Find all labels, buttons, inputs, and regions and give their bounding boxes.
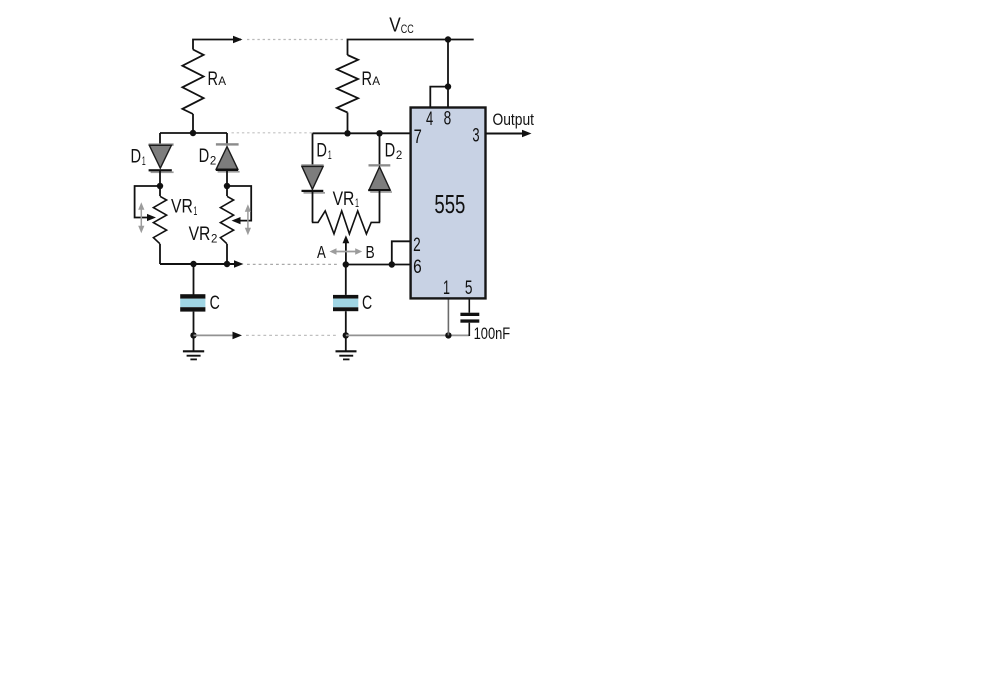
- ground (left): [183, 351, 204, 359]
- svg-text:D: D: [316, 140, 327, 162]
- label RA (left): [208, 68, 227, 90]
- wire: RA (left) bottom lead: [192, 114, 194, 133]
- potentiometer VR1 (left) zigzag: [153, 196, 166, 244]
- svg-text:VR: VR: [189, 223, 211, 245]
- svg-text:V: V: [389, 15, 401, 37]
- label RA (right): [362, 68, 381, 90]
- label D1 (left): [131, 146, 146, 168]
- svg-text:R: R: [208, 68, 219, 90]
- label Vcc: [389, 15, 414, 37]
- svg-text:1: 1: [443, 277, 450, 299]
- svg-text:A: A: [317, 242, 326, 262]
- junction: RA bottom node (left): [190, 130, 196, 136]
- wire: 100nF bottom lead: [468, 323, 470, 336]
- label D2 (left): [199, 145, 217, 167]
- svg-text:1: 1: [142, 154, 146, 168]
- wire: gray link from ground node (left): [194, 334, 235, 336]
- wire: C (right) top lead: [345, 265, 347, 295]
- junction: ground node (right): [343, 332, 349, 338]
- junction: pin2 branch node: [389, 261, 395, 267]
- wire: right circuit lower node to pin 6: [346, 264, 411, 266]
- capacitor 100nF: [460, 313, 479, 323]
- arrowhead: lower node pointing right: [234, 260, 244, 268]
- adjust arrow: VR1 gray double arrow: [138, 202, 144, 233]
- wire: left circuit top rail: [193, 40, 241, 50]
- wire: dotted link upper node: [232, 132, 313, 134]
- wire: dotted link top rail: [247, 39, 343, 41]
- wire: pin 8 to Vcc vertical: [447, 40, 449, 108]
- svg-text:2: 2: [413, 234, 421, 256]
- svg-text:555: 555: [434, 189, 465, 219]
- arrowhead: VR1 wiper pointing right: [147, 214, 156, 221]
- svg-text:D: D: [199, 145, 210, 167]
- diode D2 (right circuit): [368, 133, 392, 222]
- junction: pin4/8 tie node: [445, 83, 451, 89]
- resistor RA (left): [182, 50, 203, 115]
- svg-text:C: C: [362, 292, 372, 314]
- svg-text:2: 2: [396, 148, 403, 162]
- potentiometer VR2 (left) zigzag: [220, 196, 233, 244]
- junction: ground node (left): [190, 332, 196, 338]
- op-amp U1: 555 timer IC body: [411, 108, 486, 299]
- junction: D2 anode node (left): [224, 183, 230, 189]
- wire: pin 4 jog: [430, 87, 448, 108]
- arrowhead: VR2 wiper pointing left: [232, 217, 241, 224]
- svg-text:CC: CC: [401, 24, 414, 36]
- capacitor C (right): [333, 295, 358, 311]
- svg-text:VR: VR: [171, 196, 193, 218]
- wire: right circuit top rail: [348, 40, 474, 56]
- wire: gray bottom rail to pins 1 and 5: [346, 334, 470, 336]
- label VR1 (right): [333, 188, 360, 210]
- ground (right): [336, 351, 357, 359]
- junction: pin1 bottom node: [445, 332, 451, 338]
- wire: pin 5 down lead: [468, 298, 470, 312]
- adjust arrow: A-B gray double arrow: [330, 248, 363, 254]
- svg-text:A: A: [372, 74, 380, 88]
- svg-text:4: 4: [426, 108, 433, 130]
- capacitor C (left): [180, 294, 205, 311]
- wire: C (left) bottom lead: [193, 312, 195, 351]
- label VR1 (left): [171, 196, 198, 218]
- svg-text:VR: VR: [333, 188, 355, 210]
- junction: D1 cathode node (left): [157, 183, 163, 189]
- label D1 (right): [316, 140, 331, 162]
- wire: C (left) top lead: [193, 264, 195, 295]
- svg-text:6: 6: [413, 256, 422, 278]
- resistor RA (right): [337, 55, 358, 113]
- svg-text:1: 1: [328, 148, 332, 162]
- label D2 (right): [385, 140, 403, 162]
- arrowhead: ground link pointing right: [233, 332, 243, 340]
- wire: dotted link lower node: [247, 263, 338, 265]
- junction: RA bottom node (right): [344, 130, 350, 136]
- svg-text:2: 2: [211, 232, 218, 246]
- svg-text:100nF: 100nF: [474, 325, 511, 343]
- svg-text:5: 5: [465, 277, 473, 299]
- label VR2 (left): [189, 223, 218, 245]
- junction: Vcc node: [445, 36, 451, 42]
- wire: left circuit lower node horizontal: [160, 263, 236, 265]
- wire: left circuit upper node horizontal: [160, 132, 227, 134]
- wire: output from pin 3: [486, 133, 525, 135]
- arrowhead: output pointing right: [522, 130, 532, 138]
- junction: lower node at VR2 (left): [224, 261, 230, 267]
- wire: right circuit upper node horizontal to pin7: [313, 132, 411, 134]
- svg-text:2: 2: [210, 154, 217, 168]
- svg-text:D: D: [131, 146, 142, 168]
- potentiometer VR1 (right) horizontal zigzag: [312, 211, 380, 234]
- svg-text:7: 7: [414, 126, 422, 148]
- diode D2 (left circuit): [216, 133, 240, 186]
- wire: VR2 wiper bracket: [227, 186, 251, 221]
- junction: wiper node: [343, 261, 349, 267]
- wire: VR1 bottom lead: [159, 244, 161, 264]
- svg-text:1: 1: [355, 196, 359, 210]
- wire: VR1 top lead: [159, 186, 161, 196]
- wire: C (right) bottom lead: [345, 311, 347, 351]
- arrowhead: left top rail pointing right: [233, 36, 243, 44]
- wire: RA (right) bottom lead: [347, 113, 349, 134]
- wire: pin 1 down lead: [447, 298, 449, 335]
- svg-text:A: A: [218, 74, 226, 88]
- svg-text:C: C: [210, 292, 220, 314]
- svg-text:R: R: [362, 68, 373, 90]
- wire: VR2 top lead: [226, 186, 228, 196]
- adjust arrow: VR2 gray double arrow: [245, 204, 251, 235]
- svg-text:B: B: [366, 242, 375, 262]
- junction: lower node at C (left): [190, 261, 196, 267]
- wire: VR1 wiper bracket: [135, 186, 160, 218]
- diode D1 (right circuit): [301, 133, 325, 222]
- arrowhead: wiper pointing up: [343, 235, 350, 243]
- wire: VR1 wiper vertical: [345, 242, 347, 265]
- svg-text:8: 8: [444, 108, 452, 130]
- svg-text:D: D: [385, 140, 396, 162]
- junction: D2 top node (right): [376, 130, 382, 136]
- wire: pin 2 jog: [392, 241, 411, 264]
- svg-text:1: 1: [193, 204, 197, 218]
- wire: VR2 bottom lead: [226, 244, 228, 264]
- diode D1 (left circuit): [149, 133, 174, 186]
- svg-text:3: 3: [472, 125, 479, 147]
- svg-text:Output: Output: [493, 110, 535, 129]
- wire: dotted link ground row: [246, 334, 338, 336]
